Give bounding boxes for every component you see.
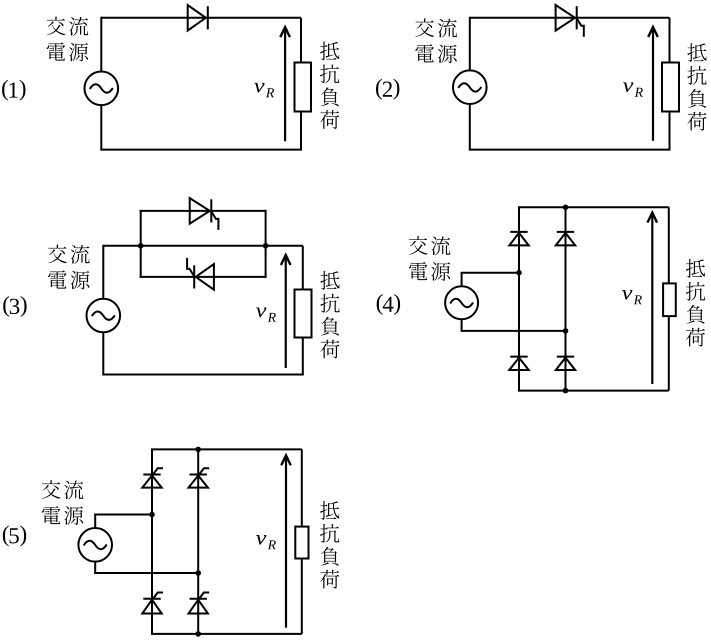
wire bottom circuit 4 — [519, 390, 669, 392]
arrow v_R circuit 2 — [648, 27, 658, 141]
wire top circuit 4 — [519, 206, 669, 208]
wire top circuit 5 — [152, 448, 302, 450]
arrow v_R circuit 3 — [281, 255, 291, 368]
wire right circuit 3 — [302, 246, 304, 375]
junction ac bottom circuit 4 — [563, 328, 569, 334]
ac-source V4 — [445, 286, 478, 319]
label 交流電源 (AC source) circuit 3 — [48, 245, 90, 290]
wire right circuit 4 — [668, 207, 670, 390]
resistor R load circuit 3 — [295, 290, 312, 338]
resistor R load circuit 1 — [295, 63, 312, 112]
junction top circuit 5 — [195, 447, 201, 453]
wire top circuit 2 — [470, 17, 670, 19]
label v_R circuit 2 — [623, 82, 643, 96]
thyristor Q2 (top branch) — [190, 198, 219, 230]
wire left lower circuit 2 — [469, 104, 471, 150]
label 交流電源 (AC source) circuit 4 — [409, 236, 451, 281]
label v_R circuit 4 — [622, 290, 642, 304]
label 抵抗負荷 (resistive load) circuit 5 — [320, 501, 339, 588]
wire right circuit 2 — [669, 18, 671, 150]
thyristor Q7 (lower right) — [189, 593, 210, 614]
wire bridge right rail circuit 4 — [565, 206, 567, 391]
arrow v_R circuit 1 — [280, 27, 290, 141]
resistor R load circuit 5 — [295, 527, 308, 559]
ac-source V2 — [453, 70, 487, 104]
label (4) — [377, 294, 400, 315]
wire ac bottom circuit 4 — [461, 330, 566, 332]
thyristor Q1 — [556, 5, 584, 37]
wire ac top circuit 4 — [461, 272, 519, 274]
wire bridge left rail circuit 4 — [518, 206, 520, 391]
junction ac top circuit 4 — [516, 270, 522, 276]
label (1) — [2, 80, 25, 101]
resistor R load circuit 2 — [662, 63, 679, 112]
wire branch top circuit 3 — [140, 210, 267, 212]
label v_R circuit 5 — [256, 535, 276, 549]
wire bottom circuit 2 — [469, 149, 671, 151]
label (3) — [3, 296, 26, 317]
wire ac left lower circuit 5 — [94, 561, 96, 573]
diode D3 (upper right) — [556, 232, 575, 246]
wire left circuit 1 — [100, 17, 102, 88]
junction bottom circuit 5 — [195, 631, 201, 637]
wire right circuit 1 — [300, 18, 302, 150]
wire ac left lower circuit 4 — [461, 319, 463, 331]
wire bridge right rail circuit 5 — [197, 448, 199, 635]
wire right circuit 5 — [301, 449, 303, 634]
wire bottom circuit 5 — [152, 633, 302, 635]
wire ac left upper circuit 5 — [94, 515, 96, 530]
junction top circuit 4 — [563, 205, 569, 211]
wire branch right circuit 3 — [265, 210, 267, 278]
wire left circuit 2 — [469, 17, 471, 87]
label 抵抗負荷 (resistive load) circuit 2 — [687, 43, 706, 130]
thyristor Q4 (upper left) — [142, 468, 163, 487]
label 交流電源 (AC source) circuit 1 — [47, 17, 89, 62]
arrow v_R circuit 4 — [648, 213, 658, 384]
junction bottom circuit 4 — [563, 388, 569, 394]
diode D1 — [188, 5, 208, 31]
diode D2 (upper left) — [509, 232, 528, 246]
label (5) — [3, 526, 26, 547]
wire ac bottom circuit 5 — [94, 572, 198, 574]
ac-source V3 — [87, 299, 121, 333]
label v_R circuit 1 — [254, 83, 274, 97]
ac-source V1 — [85, 72, 119, 106]
ac-source V5 — [78, 528, 112, 562]
junction node A circuit 3 — [138, 243, 144, 249]
label 交流電源 (AC source) circuit 5 — [42, 480, 84, 525]
wire branch left circuit 3 — [140, 210, 142, 278]
wire ac top circuit 5 — [94, 514, 152, 516]
diode D5 (lower right) — [556, 357, 575, 370]
diode D4 (lower left) — [509, 357, 528, 370]
thyristor Q5 (upper right) — [189, 468, 210, 487]
wire left lower circuit 3 — [102, 332, 104, 375]
junction ac bottom circuit 5 — [195, 570, 201, 576]
label 抵抗負荷 (resistive load) circuit 3 — [320, 271, 339, 358]
label 抵抗負荷 (resistive load) circuit 4 — [686, 259, 705, 346]
label 交流電源 (AC source) circuit 2 — [415, 18, 457, 63]
wire branch bottom circuit 3 — [140, 276, 267, 278]
wire middle circuit 3 — [103, 245, 302, 247]
wire left circuit 3 — [102, 245, 104, 315]
thyristor Q6 (lower left) — [142, 593, 163, 614]
arrow v_R circuit 5 — [281, 455, 291, 627]
wire bridge left rail circuit 5 — [151, 448, 153, 635]
wire bottom circuit 1 — [100, 149, 302, 151]
wire bottom circuit 3 — [102, 374, 303, 376]
label (2) — [376, 79, 399, 100]
wire top circuit 1 — [101, 17, 301, 19]
junction ac top circuit 5 — [149, 512, 155, 518]
resistor R load circuit 4 — [663, 283, 676, 316]
junction node B circuit 3 — [263, 243, 269, 249]
label 抵抗負荷 (resistive load) circuit 1 — [320, 42, 339, 129]
wire ac left upper circuit 4 — [461, 273, 463, 287]
wire left lower circuit 1 — [100, 105, 102, 150]
label v_R circuit 3 — [256, 308, 276, 322]
thyristor Q3 (bottom branch) — [187, 258, 214, 290]
